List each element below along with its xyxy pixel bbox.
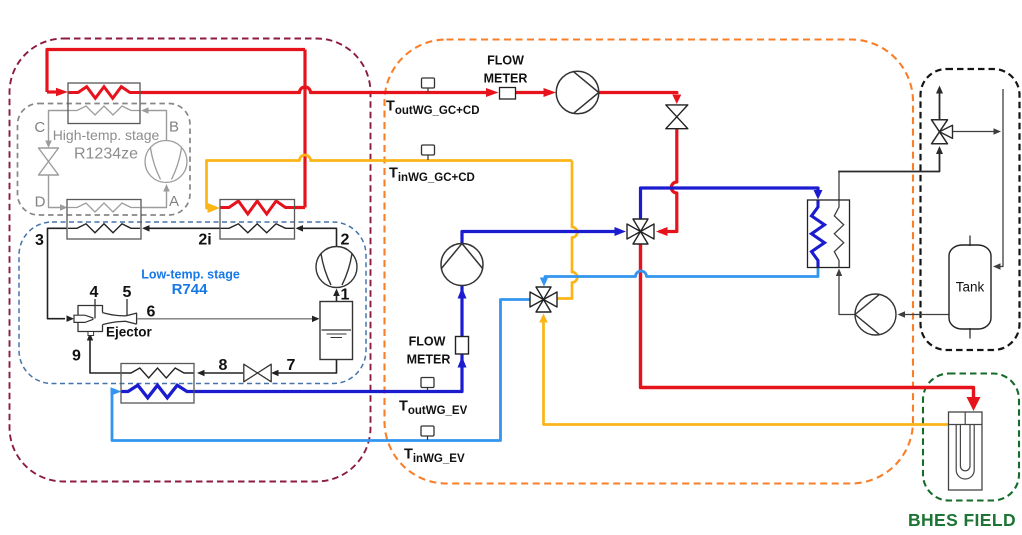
svg-text:3: 3 <box>35 232 44 249</box>
borehole heat exchanger U-tube <box>949 412 983 490</box>
wire: gray R1234ze line D: valve to cascade HX3 <box>49 175 62 208</box>
svg-text:7: 7 <box>287 357 296 374</box>
wire: red vertical from condenser 2i outlet up to main line <box>295 50 306 208</box>
arrow: blue flow up into pump P2 <box>458 288 467 299</box>
svg-text:R744: R744 <box>172 281 209 298</box>
svg-text:METER: METER <box>484 72 528 86</box>
svg-text:Low-temp. stage: Low-temp. stage <box>141 268 240 282</box>
wire: pump P3 to HX2 bottom <box>839 273 855 315</box>
heat exchanger HX3 cascade box <box>67 200 141 240</box>
heat exchanger HX2 ground loop box <box>808 200 850 268</box>
wire: red line pump to shut-off valve corner <box>556 93 677 95</box>
enclosure: high-temp stage R1234ze (gray dashed box) <box>18 104 191 216</box>
svg-text:FLOW: FLOW <box>487 54 524 68</box>
svg-text:BHES FIELD: BHES FIELD <box>908 510 1016 530</box>
wire: light blue from HX2 outlet to mixing valve MV2, hops over red and orange <box>545 268 818 280</box>
wire: black R744 line 3: HX3 to ejector motive inlet <box>48 228 68 318</box>
wire: red line flow meter to pump <box>516 91 546 94</box>
wire: dark blue ToutWG_EV line from evaporator to pump P2 riser <box>194 232 616 392</box>
heat exchanger 2i red hot-side zigzag <box>220 201 295 214</box>
enclosure: water-glycol circuits (orange dashed box) <box>385 40 914 484</box>
enclosure: heat-pump test rig (dark red dashed box) <box>10 39 371 482</box>
temperature sensor TinWG_EV <box>427 436 429 440</box>
wire: tank valve top outlet stub <box>939 93 941 120</box>
svg-text:Ejector: Ejector <box>106 325 153 340</box>
ejector motive nozzle <box>74 315 93 322</box>
wire: red return from MV1 bottom to BHES field <box>641 243 974 398</box>
svg-text:ToutWG_GC+CD: ToutWG_GC+CD <box>386 99 480 118</box>
wire: black R744 line 2: compressor discharge to condenser 2i <box>300 228 337 247</box>
wire: orange from MV2 right port up, hop over blue line, to TinWG_GC+CD line <box>557 161 578 299</box>
wire: tank outlet to pump P3 <box>903 314 949 316</box>
svg-text:A: A <box>169 193 179 210</box>
wire: light blue TinWG_EV line from MV2 left port to evaporator inlet <box>112 300 531 441</box>
wire: gray R1234ze discharge line B: compressor to HX1 <box>146 111 167 141</box>
shut-off valve V3 on red line <box>666 105 688 117</box>
pump P1 hot water circuit <box>556 71 599 114</box>
expansion valve high-temp stage (gray bowtie) <box>39 148 59 162</box>
svg-text:2: 2 <box>341 232 350 249</box>
wire: black R744 line 9: evaporator to ejector suction <box>90 339 121 373</box>
svg-text:8: 8 <box>219 357 228 374</box>
svg-text:High-temp. stage: High-temp. stage <box>53 127 160 143</box>
flow meter 2 on blue line <box>456 337 469 355</box>
heat exchanger HX1 red side zigzag (gas cooler water side) <box>68 87 140 99</box>
heat exchanger HX3 black R744-side zigzag <box>68 224 140 233</box>
enclosure: storage tank circuit (black dashed box) <box>921 69 1020 350</box>
wire: black R744 line 2i-3: condenser to cascade HX3 <box>147 227 220 229</box>
pump P2 chilled water circuit <box>441 244 483 286</box>
separator vessel 1 <box>320 302 353 360</box>
heat exchanger EV evaporator box <box>121 364 194 404</box>
flow meter 1 on red line <box>500 88 516 100</box>
heat exchanger HX2 black ground-side zigzag <box>834 200 843 268</box>
wire: ground loop from HX2 top to 3-way valve <box>838 172 840 201</box>
svg-text:TinWG_GC+CD: TinWG_GC+CD <box>389 166 475 185</box>
svg-text:C: C <box>34 119 45 136</box>
svg-text:1: 1 <box>341 287 350 304</box>
enclosure: low-temp stage R744 (blue dashed box) <box>19 222 366 384</box>
arrow: blue flow up into flow meter 2 <box>458 357 467 368</box>
enclosure: BHES field (green dashed box) <box>923 374 1019 501</box>
svg-text:B: B <box>169 119 179 136</box>
svg-text:METER: METER <box>407 353 451 367</box>
wire: orange return from BHES field to mixing valve MV2 bottom <box>544 322 949 425</box>
wire: orange TinWG_GC+CD line with hop over red riser, down into condenser 2i <box>207 155 573 208</box>
storage tank vessel <box>949 245 991 329</box>
wire: red hot water riser from gas cooler HX1 inlet <box>47 50 305 93</box>
wire: dark blue from MV1 top port over to ground heat exchanger HX2 <box>641 188 819 220</box>
wire: gray ejector outlet line 6 to separator <box>138 318 315 320</box>
wire: gray R1234ze liquid line C: HX1 to expansion valve <box>49 111 69 143</box>
ejector body <box>78 306 103 332</box>
svg-text:TinWG_EV: TinWG_EV <box>404 447 465 466</box>
temperature sensor TinWG_GC+CD <box>427 155 429 160</box>
svg-text:2i: 2i <box>198 232 211 249</box>
wire: red main supply line ToutWG_GC+CD with hop over riser <box>140 87 489 93</box>
svg-text:9: 9 <box>72 348 81 365</box>
wire: black R744 line 1: separator to compressor suction <box>336 293 338 301</box>
wire: valve right port to tank down-leg <box>953 131 995 133</box>
heat exchanger HX3 gray R1234ze-side zigzag <box>68 203 140 212</box>
svg-text:Tank: Tank <box>956 280 985 295</box>
compressor 2 low-temp stage R744 <box>316 247 357 288</box>
svg-text:FLOW: FLOW <box>409 335 446 349</box>
mixing valve MV1 (4-way cross) <box>627 224 641 239</box>
wire: gray R1234ze suction line A: HX3 to compressor <box>141 190 167 208</box>
svg-text:ToutWG_EV: ToutWG_EV <box>399 399 468 418</box>
heat exchanger HX1 gas cooler box <box>68 83 140 124</box>
heat exchanger EV black R744-side zigzag <box>121 368 194 378</box>
ejector state point leader 5 <box>126 299 128 316</box>
svg-text:4: 4 <box>90 284 99 301</box>
svg-text:R1234ze: R1234ze <box>74 146 138 163</box>
ejector suction port stub <box>88 332 94 336</box>
temperature sensor ToutWG_EV <box>427 388 429 392</box>
three-way valve tank circuit <box>932 120 948 132</box>
ejector state point leader 4 <box>94 299 96 319</box>
svg-text:5: 5 <box>123 284 132 301</box>
heat exchanger 2i condenser box <box>220 200 295 240</box>
heat exchanger EV evaporator blue water-side zigzag <box>121 385 194 398</box>
mixing valve MV2 (4-way cross) <box>530 292 544 307</box>
svg-text:D: D <box>35 194 46 211</box>
svg-text:6: 6 <box>147 304 156 321</box>
expansion valve 7-8 low-temp (black bowtie) <box>244 364 258 382</box>
wire: red drop from valve V3 to mixing valve MV1 with hop over blue line <box>659 129 677 232</box>
compressor high-temp stage R1234ze <box>145 141 187 183</box>
heat exchanger HX2 blue side zigzag <box>812 200 825 268</box>
heat exchanger 2i black R744-side zigzag <box>220 224 295 233</box>
wire: black R744 liquid line 7-8: separator to expansion valve to evaporator <box>276 360 337 374</box>
temperature sensor ToutWG_GC+CD <box>427 88 429 92</box>
pump P3 ground loop <box>855 294 896 335</box>
heat exchanger HX1 gray refrigerant-side zigzag <box>68 106 140 115</box>
